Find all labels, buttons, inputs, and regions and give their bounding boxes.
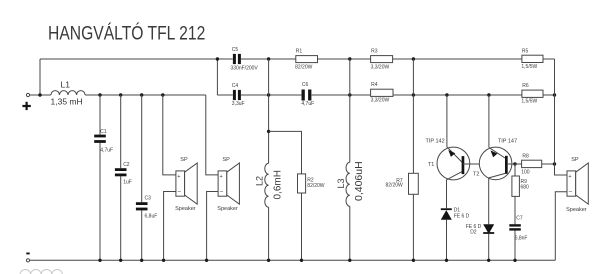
svg-text:Speaker: Speaker xyxy=(217,206,238,212)
wire speaker2 feed xyxy=(206,95,218,175)
svg-text:R5: R5 xyxy=(522,48,529,54)
wire R7 branch drop xyxy=(412,59,414,260)
wire input rail y95 left section xyxy=(30,94,206,96)
wire L2 branch drop xyxy=(268,59,270,260)
wire right rail from R5 xyxy=(555,59,568,175)
svg-text:C6: C6 xyxy=(302,82,309,88)
speaker SP1 xyxy=(175,157,197,212)
svg-text:4,7uF: 4,7uF xyxy=(301,101,314,107)
svg-text:82/20W: 82/20W xyxy=(295,65,313,71)
svg-text:82/20W: 82/20W xyxy=(386,182,404,188)
junctions on mid rail xyxy=(267,93,556,96)
svg-text:1,5/5W: 1,5/5W xyxy=(521,64,537,70)
svg-text:100: 100 xyxy=(521,170,530,176)
capacitor C5 xyxy=(231,47,259,71)
resistor R5 xyxy=(521,48,543,70)
wire riser to C4/C5 bank xyxy=(216,59,218,95)
resistor R6 xyxy=(521,83,543,105)
wire R9 C7 chain xyxy=(514,164,516,260)
svg-text:3,3uF: 3,3uF xyxy=(232,101,245,107)
svg-text:C3: C3 xyxy=(145,196,152,202)
diode D1 xyxy=(441,208,470,220)
title HANGVALTO TFL 212 xyxy=(48,21,205,44)
wire L3 branch drop xyxy=(349,59,351,260)
junction L2 to R2 stub xyxy=(267,130,270,133)
svg-text:Speaker: Speaker xyxy=(566,207,587,213)
svg-text:+: + xyxy=(177,174,180,180)
svg-text:R8: R8 xyxy=(522,154,529,160)
capacitor C1 xyxy=(94,95,113,260)
svg-text:C1: C1 xyxy=(100,129,107,135)
svg-text:TIP 147: TIP 147 xyxy=(498,139,517,145)
node - input terminal xyxy=(26,253,29,262)
svg-text:SP: SP xyxy=(223,157,231,163)
wire mid rail y95 right section xyxy=(217,94,554,96)
svg-text:L2: L2 xyxy=(255,176,265,186)
capacitor C6 xyxy=(301,82,314,107)
svg-text:R3: R3 xyxy=(371,48,378,54)
svg-text:3,3/20W: 3,3/20W xyxy=(371,98,390,104)
svg-text:C5: C5 xyxy=(232,47,239,53)
resistor R4 xyxy=(371,82,393,104)
wire speaker2 return xyxy=(207,192,219,261)
svg-text:82/20W: 82/20W xyxy=(307,183,325,189)
resistor R2 xyxy=(298,174,325,193)
wire T2 collector feed xyxy=(488,95,490,147)
svg-text:Speaker: Speaker xyxy=(175,206,196,212)
speaker SP2 xyxy=(217,157,239,212)
svg-text:680: 680 xyxy=(521,184,530,190)
svg-text:D2: D2 xyxy=(470,229,477,235)
svg-text:R6: R6 xyxy=(522,83,529,89)
svg-text:HANGVÁLTÓ TFL 212: HANGVÁLTÓ TFL 212 xyxy=(48,21,205,44)
wire speaker1 return xyxy=(164,192,176,261)
resistor R3 xyxy=(371,48,393,70)
svg-text:3,3/20W: 3,3/20W xyxy=(371,65,390,71)
svg-text:T1: T1 xyxy=(428,162,434,168)
svg-text:330nF/200V: 330nF/200V xyxy=(231,65,259,71)
capacitor C4 xyxy=(232,83,245,107)
wire T2 emitter drop xyxy=(488,178,490,260)
inductor L2 xyxy=(255,163,284,207)
resistor R7 xyxy=(386,173,419,194)
junction base node xyxy=(513,162,516,165)
junctions on top rail xyxy=(216,57,415,60)
capacitor C7 xyxy=(509,216,527,242)
svg-text:C2: C2 xyxy=(123,162,130,168)
svg-text:C4: C4 xyxy=(232,83,239,89)
capacitor C2 xyxy=(115,95,132,260)
svg-text:L1: L1 xyxy=(61,80,71,90)
svg-text:1,5/5W: 1,5/5W xyxy=(521,99,537,105)
capacitor C3 xyxy=(136,95,157,260)
wire top rail y59 xyxy=(40,58,555,60)
svg-text:TIP 142: TIP 142 xyxy=(426,138,445,144)
inductor L3 xyxy=(336,161,365,206)
svg-text:0,6mH: 0,6mH xyxy=(273,170,284,199)
svg-text:+: + xyxy=(568,174,571,180)
svg-text:SP: SP xyxy=(180,157,188,163)
svg-text:+: + xyxy=(220,174,223,180)
node + input terminal xyxy=(22,93,30,110)
wire R8 row xyxy=(515,163,555,165)
speaker SP3 xyxy=(566,157,588,213)
transistor Q2 TIP147 xyxy=(473,139,517,180)
transistor Q1 TIP142 xyxy=(426,138,470,180)
wire riser from + node to top rail xyxy=(39,59,41,95)
wire speaker1 feed xyxy=(163,95,176,175)
junction R8 right xyxy=(553,162,556,165)
svg-text:C7: C7 xyxy=(516,216,523,222)
wire T1 collector feed xyxy=(446,95,448,147)
wire bottom rail xyxy=(30,259,556,261)
diode D2 xyxy=(466,224,495,235)
resistor R8 xyxy=(521,154,541,176)
wire speaker3 return xyxy=(555,192,567,260)
svg-text:1,35 mH: 1,35 mH xyxy=(51,97,83,107)
svg-text:6,8uF: 6,8uF xyxy=(145,213,158,219)
svg-text:T2: T2 xyxy=(473,172,479,178)
inductor L1 xyxy=(51,80,86,107)
wire base link T1-T2 xyxy=(463,163,515,165)
svg-text:6,8nF: 6,8nF xyxy=(515,235,528,241)
svg-text:D1: D1 xyxy=(454,208,461,214)
svg-text:1uF: 1uF xyxy=(123,180,132,186)
svg-text:R4: R4 xyxy=(371,82,378,88)
svg-text:SP: SP xyxy=(571,157,579,163)
svg-text:R1: R1 xyxy=(296,48,303,54)
wire R2 stub xyxy=(269,131,302,260)
junctions on input rail xyxy=(38,93,164,96)
svg-text:FE 6 D: FE 6 D xyxy=(454,214,470,220)
svg-text:4,7uF: 4,7uF xyxy=(100,148,113,154)
wire T1 emitter drop xyxy=(446,180,448,260)
svg-text:L3: L3 xyxy=(336,178,346,188)
resistor R9 xyxy=(512,176,529,196)
svg-text:0,406uH: 0,406uH xyxy=(353,161,365,201)
junctions on bottom rail xyxy=(98,259,516,262)
resistor R1 xyxy=(295,48,317,70)
ghost arc artifact bottom left xyxy=(20,270,62,274)
